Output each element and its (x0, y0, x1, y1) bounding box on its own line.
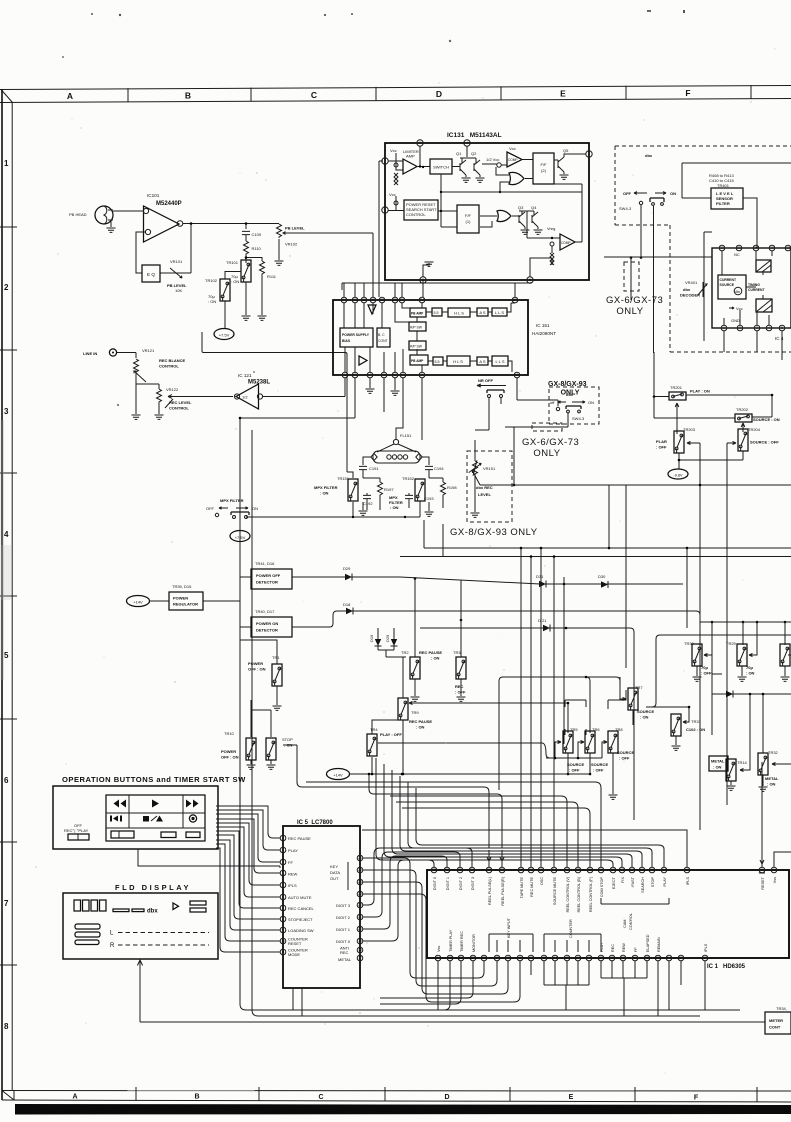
svg-text:C192: C192 (363, 501, 373, 506)
svg-text:5: 5 (781, 326, 783, 330)
svg-text:REC: REC (455, 684, 464, 689)
svg-text:KEY: KEY (330, 864, 338, 869)
svg-text:DETECTOR: DETECTOR (256, 628, 278, 633)
svg-text:KEY INPUT: KEY INPUT (507, 917, 511, 938)
svg-text:14: 14 (342, 298, 346, 302)
svg-text:METAL: METAL (765, 776, 779, 781)
svg-text:2: 2 (4, 283, 9, 292)
svg-text:6: 6 (4, 776, 9, 785)
svg-text:COMP: COMP (561, 241, 571, 245)
svg-text:24: 24 (420, 298, 424, 302)
svg-text:CONT: CONT (378, 339, 388, 343)
svg-text:OFF: OFF (623, 191, 632, 196)
svg-text:D29: D29 (385, 634, 390, 642)
svg-text:F: F (685, 88, 690, 98)
svg-text:36: 36 (459, 956, 463, 960)
svg-text:18: 18 (620, 868, 624, 872)
svg-text:R111: R111 (267, 274, 277, 279)
svg-text:CONTROL: CONTROL (406, 212, 426, 217)
svg-text:VR122: VR122 (166, 387, 179, 392)
svg-text:25: 25 (358, 868, 362, 872)
svg-text:2: 2 (419, 141, 421, 145)
svg-text:FF: FF (288, 860, 293, 865)
svg-text:48: 48 (599, 956, 603, 960)
svg-text:Vss: Vss (437, 946, 441, 952)
svg-text:26: 26 (400, 298, 404, 302)
svg-text:IC101: IC101 (147, 193, 160, 198)
svg-text:DIGIT 1: DIGIT 1 (336, 927, 351, 932)
svg-text:5: 5 (529, 278, 531, 282)
svg-text:TR2: TR2 (401, 650, 409, 655)
svg-text:24: 24 (358, 880, 362, 884)
svg-text:Vcc: Vcc (389, 192, 396, 197)
svg-text:41: 41 (518, 956, 522, 960)
svg-text:MODE: MODE (288, 952, 300, 957)
svg-text:IC 4: IC 4 (775, 336, 784, 341)
svg-text:Q5: Q5 (563, 148, 569, 153)
svg-text:19: 19 (770, 246, 774, 250)
svg-text:REC PAUSE: REC PAUSE (419, 650, 442, 655)
svg-text:53: 53 (656, 956, 660, 960)
svg-text:TR204: TR204 (748, 427, 761, 432)
svg-text:REW: REW (622, 943, 626, 952)
svg-text:COMP: COMP (508, 158, 518, 162)
svg-text:A S: A S (479, 359, 486, 364)
svg-text:: ON: : ON (640, 715, 649, 720)
svg-text:REEL CONTROL (F): REEL CONTROL (F) (589, 876, 593, 912)
svg-text:PLAY: PLAY (663, 877, 667, 887)
svg-text:COUNTER: COUNTER (569, 919, 573, 938)
svg-text:: OFF: : OFF (593, 768, 604, 773)
svg-text:OFF: OFF (206, 506, 215, 511)
svg-text:Vcc: Vcc (509, 146, 516, 151)
svg-text:REC BLANCE: REC BLANCE (159, 358, 186, 363)
svg-text:OPERATION BUTTONS and TIMER: OPERATION BUTTONS and TIMER START SW (62, 775, 246, 784)
svg-text:C109: C109 (252, 232, 262, 237)
svg-text:D19: D19 (369, 634, 374, 642)
svg-text:: ON: : ON (746, 671, 755, 676)
svg-text:15: 15 (650, 868, 654, 872)
svg-text:: ON: : ON (390, 505, 399, 510)
svg-text:23: 23 (565, 868, 569, 872)
svg-text:: ON: : ON (208, 299, 216, 304)
svg-text:CURRENT: CURRENT (748, 288, 766, 292)
svg-text:28: 28 (380, 298, 384, 302)
svg-text:14: 14 (662, 868, 666, 872)
svg-text:32: 32 (445, 868, 449, 872)
svg-text:SOURCE : OFF: SOURCE : OFF (750, 440, 779, 445)
svg-text:FL151: FL151 (400, 433, 412, 438)
svg-text:F/F: F/F (541, 162, 548, 167)
svg-text:AMP: AMP (406, 154, 415, 159)
svg-text:COM STOP: COM STOP (600, 877, 604, 898)
svg-text:REC PAUSE: REC PAUSE (288, 836, 311, 841)
svg-text:4: 4 (768, 326, 770, 330)
svg-text:43: 43 (542, 956, 546, 960)
svg-text:DIGIT 2: DIGIT 2 (459, 877, 463, 890)
svg-text:REMAIN: REMAIN (657, 937, 661, 952)
svg-text:26: 26 (529, 868, 533, 872)
svg-text:CONTROL: CONTROL (159, 364, 179, 369)
svg-text:D31: D31 (536, 574, 544, 579)
svg-text:55: 55 (679, 956, 683, 960)
svg-text:(1): (1) (466, 219, 472, 224)
svg-text:POWER: POWER (173, 596, 188, 601)
svg-text:-9.8V: -9.8V (673, 474, 683, 478)
svg-text:CON'ROL: CON'ROL (629, 913, 633, 930)
svg-text:CONT: CONT (769, 1025, 781, 1030)
svg-text:PLAY : OFF: PLAY : OFF (380, 732, 402, 737)
svg-text:PB AMP: PB AMP (411, 312, 424, 316)
svg-text:: ON: : ON (767, 782, 776, 787)
svg-text:: OFF: : OFF (455, 690, 466, 695)
svg-text:5.5: 5.5 (435, 360, 440, 364)
svg-text:22: 22 (513, 298, 517, 302)
svg-text:SEARCH: SEARCH (641, 877, 645, 893)
svg-text:11: 11 (515, 373, 519, 377)
svg-text:D: D (436, 89, 442, 99)
svg-text:TIMING: TIMING (748, 283, 760, 287)
svg-text:TR201: TR201 (670, 385, 683, 390)
svg-text:BIAS: BIAS (342, 339, 351, 343)
svg-text:42: 42 (529, 956, 533, 960)
svg-text:SOURCE MUTE: SOURCE MUTE (553, 877, 557, 906)
svg-text:D: D (444, 1094, 449, 1101)
svg-text:21: 21 (737, 246, 741, 250)
svg-text:STOP: STOP (282, 737, 293, 742)
svg-text:REEL PULSE(R): REEL PULSE(R) (501, 876, 505, 905)
svg-text:NC: NC (734, 252, 740, 257)
svg-text:A: A (67, 91, 73, 101)
svg-text:dbx: dbx (683, 287, 691, 292)
svg-text:SW4-3: SW4-3 (619, 206, 632, 211)
svg-text:GX-6/GX-73: GX-6/GX-73 (522, 437, 579, 448)
svg-text:Q4: Q4 (531, 205, 537, 210)
svg-text:OFF : ON: OFF : ON (221, 755, 239, 760)
svg-text:dbx: dbx (735, 290, 741, 294)
svg-text:POWER SUPPLY: POWER SUPPLY (342, 333, 370, 337)
svg-text:: ON: : ON (713, 765, 722, 770)
svg-text:REEL CONTROL (V): REEL CONTROL (V) (566, 876, 570, 912)
svg-text:: ON: : ON (431, 656, 440, 661)
svg-text:dbx: dbx (645, 153, 653, 158)
svg-text:PB LEVEL: PB LEVEL (285, 226, 305, 231)
svg-text:1: 1 (384, 159, 386, 163)
svg-text:5: 5 (4, 651, 9, 660)
svg-text:IC 5 LC7800: IC 5 LC7800 (297, 820, 333, 826)
svg-text:C: C (311, 90, 317, 100)
svg-text:26: 26 (358, 856, 362, 860)
svg-text:2: 2 (739, 326, 741, 330)
svg-text:OFF : ON: OFF : ON (248, 667, 266, 672)
svg-text:(2): (2) (541, 168, 547, 173)
svg-text:LEVEL: LEVEL (478, 492, 491, 497)
svg-text:GX-6/GX-73: GX-6/GX-73 (606, 295, 663, 306)
svg-text:ON: ON (588, 400, 594, 405)
svg-text:SW4-3: SW4-3 (572, 416, 585, 421)
svg-text:F: F (694, 1094, 699, 1101)
svg-text:5.5: 5.5 (434, 311, 439, 315)
svg-text:REC CANCEL: REC CANCEL (288, 906, 315, 911)
svg-text:4: 4 (369, 373, 371, 377)
svg-text:70μ: 70μ (701, 665, 708, 670)
svg-text:D 21: D 21 (538, 618, 547, 623)
svg-text:AUTO MUTE: AUTO MUTE (288, 895, 312, 900)
svg-text:: OFF: : OFF (619, 756, 630, 761)
svg-text:54: 54 (667, 956, 671, 960)
svg-text:METAL: METAL (338, 957, 352, 962)
svg-text:DIGIT 1: DIGIT 1 (446, 877, 450, 890)
svg-text:51: 51 (633, 956, 637, 960)
svg-text:TR10: TR10 (224, 731, 235, 736)
svg-text:49: 49 (610, 956, 614, 960)
svg-text:RESET: RESET (288, 941, 302, 946)
svg-text:R/P SW: R/P SW (410, 345, 423, 349)
svg-text:REEL CONTROL (B): REEL CONTROL (B) (577, 876, 581, 912)
svg-text:4: 4 (466, 141, 468, 145)
svg-text:18: 18 (786, 246, 790, 250)
svg-text:B: B (194, 1094, 199, 1101)
svg-text:3: 3 (756, 326, 758, 330)
svg-text:2: 2 (761, 868, 763, 872)
svg-text:1: 1 (344, 373, 346, 377)
svg-text:Vcc: Vcc (736, 306, 743, 311)
svg-text:+14V: +14V (133, 600, 143, 605)
svg-text:MONITOR: MONITOR (472, 934, 476, 952)
svg-text:IC 151: IC 151 (536, 323, 550, 328)
svg-text:ELAPSED: ELAPSED (646, 934, 650, 952)
svg-text:D30: D30 (598, 574, 606, 579)
svg-text:44: 44 (553, 956, 557, 960)
svg-text:TR401: TR401 (717, 183, 730, 188)
svg-text:POWER: POWER (248, 661, 263, 666)
svg-text:TR102: TR102 (205, 278, 218, 283)
svg-text:RESET: RESET (761, 876, 765, 889)
svg-text:TR203: TR203 (683, 427, 696, 432)
svg-text:PB HEAD: PB HEAD (69, 212, 87, 217)
svg-text:TR31: TR31 (691, 719, 702, 724)
svg-text:VR401: VR401 (685, 280, 698, 285)
svg-text:: OFF: : OFF (701, 671, 712, 676)
svg-text:PB AMP: PB AMP (411, 359, 424, 363)
svg-text:30: 30 (470, 868, 474, 872)
svg-text:22: 22 (358, 903, 362, 907)
svg-text:E Q: E Q (147, 272, 155, 277)
svg-text:39: 39 (495, 956, 499, 960)
svg-text:VR101: VR101 (170, 259, 183, 264)
svg-text:NR OFF: NR OFF (478, 378, 493, 383)
svg-text:H L S: H L S (453, 359, 463, 364)
svg-text:: ON: : ON (231, 279, 239, 284)
svg-text:1: 1 (723, 326, 725, 330)
svg-text:: ON: : ON (416, 725, 425, 730)
svg-text:ONLY: ONLY (616, 306, 643, 317)
svg-text:C194: C194 (434, 466, 444, 471)
svg-text:23: 23 (720, 246, 724, 250)
svg-text:SOURCE: SOURCE (617, 750, 634, 755)
svg-text:STOP: STOP (651, 877, 655, 888)
svg-text:2: 2 (354, 373, 356, 377)
svg-text:E: E (569, 1094, 574, 1101)
svg-text:TAPE MUTE: TAPE MUTE (520, 877, 524, 899)
svg-text:7: 7 (4, 899, 9, 908)
svg-text:11: 11 (281, 950, 284, 954)
svg-text:METER: METER (769, 1018, 783, 1023)
svg-text:E: E (560, 89, 566, 99)
svg-text:SOURCE: SOURCE (591, 762, 608, 767)
svg-text:off: off (550, 400, 555, 405)
svg-text:4: 4 (384, 208, 386, 212)
svg-text:DIGIT 2: DIGIT 2 (336, 915, 351, 920)
svg-text:33: 33 (432, 868, 436, 872)
svg-text:8: 8 (4, 1022, 9, 1031)
svg-text:D29: D29 (343, 566, 351, 571)
svg-text:Q3: Q3 (518, 205, 524, 210)
svg-text:52: 52 (645, 956, 649, 960)
svg-text:R110: R110 (252, 246, 262, 251)
svg-text:Q2: Q2 (471, 151, 477, 156)
svg-text:STOP/EJECT: STOP/EJECT (288, 917, 313, 922)
svg-text:GX-8/GX-93 ONLY: GX-8/GX-93 ONLY (450, 527, 538, 538)
svg-text:CAM: CAM (623, 920, 627, 928)
svg-text:GND: GND (731, 318, 740, 323)
svg-text:OSC: OSC (540, 877, 544, 885)
svg-text:DIGIT 0: DIGIT 0 (336, 939, 351, 944)
svg-text:34: 34 (436, 956, 440, 960)
svg-text:L: L (110, 931, 114, 937)
svg-text:VR151: VR151 (483, 466, 496, 471)
svg-text:C: C (318, 1094, 323, 1101)
svg-text:Vss: Vss (773, 877, 777, 883)
svg-text:POWER OFF: POWER OFF (256, 573, 281, 578)
svg-text:REC: REC (340, 950, 349, 955)
svg-text:16: 16 (640, 868, 644, 872)
svg-text:DECODER: DECODER (680, 293, 700, 298)
svg-text:SOURCE : ON: SOURCE : ON (753, 417, 780, 422)
svg-text:37: 37 (471, 956, 475, 960)
svg-text:REC PAUSE: REC PAUSE (409, 719, 432, 724)
svg-text:3: 3 (4, 407, 9, 416)
svg-text:13: 13 (703, 956, 707, 960)
svg-text:B: B (185, 90, 191, 100)
svg-text:L L S: L L S (495, 359, 504, 364)
svg-text:TR34,: TR34, (776, 1006, 787, 1011)
svg-text:+7.5V: +7.5V (219, 333, 230, 338)
svg-text:13: 13 (353, 298, 357, 302)
svg-text:20: 20 (358, 927, 362, 931)
svg-text:ONLY: ONLY (533, 448, 560, 459)
svg-text:23: 23 (358, 892, 362, 896)
svg-text:27: 27 (519, 868, 523, 872)
svg-text:Vreg: Vreg (547, 226, 555, 231)
svg-text:METAL: METAL (711, 759, 725, 764)
svg-text:DIGIT 0: DIGIT 0 (433, 877, 437, 890)
svg-text:REC LEVEL: REC LEVEL (169, 400, 192, 405)
svg-text:LINE IN: LINE IN (83, 351, 97, 356)
svg-text:OUT: OUT (330, 876, 339, 881)
svg-text:21: 21 (393, 298, 397, 302)
svg-text:19: 19 (611, 868, 615, 872)
svg-text:TIMER PLAY: TIMER PLAY (449, 929, 453, 952)
svg-text:1: 1 (4, 159, 9, 168)
svg-text:PLAR: PLAR (656, 439, 667, 444)
svg-text:F/F: F/F (465, 213, 472, 218)
svg-text:REW: REW (288, 872, 298, 877)
svg-text:SOURCE: SOURCE (637, 709, 654, 714)
svg-text:POWER ON: POWER ON (256, 621, 278, 626)
svg-text:TR9: TR9 (411, 710, 419, 715)
svg-text:L L S: L L S (495, 310, 504, 315)
svg-text:17: 17 (630, 868, 634, 872)
svg-text:C102 : ON: C102 : ON (686, 727, 705, 732)
svg-text:FAST: FAST (631, 876, 635, 886)
svg-text:SWITCH: SWITCH (433, 165, 449, 170)
svg-text:1/2: 1/2 (242, 395, 248, 400)
svg-text:18: 18 (371, 298, 375, 302)
svg-text:TR152: TR152 (402, 476, 415, 481)
svg-text:FLD DISPLAY: FLD DISPLAY (115, 883, 191, 892)
svg-text:R197: R197 (384, 487, 394, 492)
svg-text:C191: C191 (369, 466, 379, 471)
svg-text:4: 4 (4, 530, 9, 539)
svg-text:POWER: POWER (221, 749, 236, 754)
svg-text:TR3: TR3 (453, 650, 461, 655)
svg-text:REEL PULSE(L): REEL PULSE(L) (488, 876, 492, 905)
svg-text:D18: D18 (343, 602, 351, 607)
svg-text:: OFF: : OFF (656, 445, 667, 450)
svg-text:22: 22 (576, 868, 580, 872)
svg-text:TR14: TR14 (737, 760, 748, 765)
svg-text:R: R (110, 943, 115, 949)
svg-text:TR40, D17: TR40, D17 (255, 609, 275, 614)
svg-text:SOURCE: SOURCE (567, 762, 584, 767)
svg-text:IC 121: IC 121 (238, 373, 252, 378)
svg-text:H L S: H L S (454, 311, 464, 316)
svg-text:21: 21 (588, 868, 592, 872)
svg-text:Q1: Q1 (456, 151, 462, 156)
svg-text:20: 20 (599, 868, 603, 872)
svg-text:: OFF: : OFF (569, 768, 580, 773)
svg-text:7: 7 (402, 373, 404, 377)
svg-text:21: 21 (358, 915, 362, 919)
svg-text:IPLS: IPLS (288, 883, 297, 888)
svg-text:R198: R198 (447, 485, 457, 490)
svg-text:20: 20 (754, 246, 758, 250)
svg-text:VR121: VR121 (142, 348, 155, 353)
svg-text:29: 29 (487, 868, 491, 872)
svg-text:TR202: TR202 (736, 407, 749, 412)
svg-text:25: 25 (539, 868, 543, 872)
svg-text:IC 1 HD6305: IC 1 HD6305 (707, 964, 746, 970)
svg-text:CURRENT: CURRENT (720, 278, 738, 282)
svg-text:5: 5 (383, 373, 385, 377)
svg-text:16: 16 (362, 298, 366, 302)
svg-text:: ON: : ON (320, 491, 329, 496)
svg-text:DIGIT 3: DIGIT 3 (471, 877, 475, 890)
svg-text:LOADING SW: LOADING SW (288, 928, 314, 933)
svg-text:7: 7 (588, 152, 590, 156)
svg-text:6: 6 (394, 373, 396, 377)
svg-text:19: 19 (358, 939, 362, 943)
svg-text:DATA: DATA (330, 870, 340, 875)
svg-text:M5238L: M5238L (248, 380, 270, 386)
svg-text:FF: FF (634, 947, 638, 952)
svg-text:DIGIT 3: DIGIT 3 (336, 903, 351, 908)
svg-text:REC⌜| ⌝PLAY: REC⌜| ⌝PLAY (64, 828, 89, 833)
svg-text:A S: A S (479, 310, 486, 315)
svg-text:TR101: TR101 (226, 260, 239, 265)
svg-text:FILTER: FILTER (716, 201, 730, 206)
